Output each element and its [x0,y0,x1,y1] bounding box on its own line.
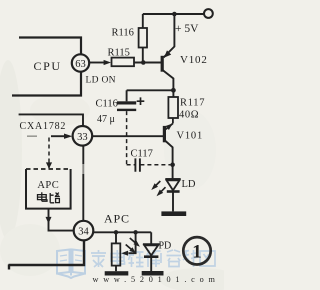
svg-text:R115: R115 [108,48,130,59]
wire APC box to pin34 [49,209,74,231]
svg-text:C117: C117 [131,149,153,160]
svg-text:www.520101.com: www.520101.com [93,275,220,284]
svg-text:CPU: CPU [34,59,62,73]
wire CXA1782 to pin33 top [19,114,83,126]
ground PD [142,271,164,276]
wire pin33 to pin34 [82,146,84,221]
watermark char 2 dian [111,250,125,264]
svg-text:LD: LD [182,179,196,190]
wire dashed down to APC box [48,138,50,169]
label dian-lu (circuit) glyphs [38,192,60,203]
wire pin33 to V101 base [92,135,164,137]
laser diode LD [165,178,180,180]
capacitor C117 [135,158,140,171]
light arrows out of LD [155,181,161,187]
node pot top junction [114,230,118,234]
junction base node [141,60,146,65]
node emitter-C117 junction [170,162,175,167]
APC circuit box [26,168,71,170]
transistor V101 collector lead [164,140,172,179]
ground pot [105,271,129,275]
svg-text:PD: PD [159,241,172,252]
wire arrow into pin 33 [51,135,65,137]
resistor R115 [112,58,135,67]
watermark char 1 jia [91,250,106,267]
watermark char 6 liao [183,250,198,267]
capacitor C116 [126,90,128,101]
svg-text:R117: R117 [180,98,205,109]
node collector junction [171,88,176,93]
svg-text:V101: V101 [177,131,204,142]
svg-text:CXA1782: CXA1782 [20,121,67,132]
node wiper branch junction [133,230,137,234]
CXA1782 pin 33 circle [73,126,93,146]
potentiometer wiper arrow [128,232,135,253]
ground LD [161,211,186,216]
svg-text:1: 1 [192,242,202,263]
resistor R116 [142,14,144,28]
wire pin63 to R115 with arrow [89,62,105,64]
svg-text:47 μ: 47 μ [97,114,115,125]
wire dashed to C117 [127,164,135,166]
figure callout circled 1 [183,237,210,264]
svg-text:40Ω: 40Ω [179,110,199,121]
wire pin34 down-left [9,240,85,269]
CPU box [12,38,81,96]
transistor V101 base bar [163,126,166,142]
wire collector node to C116 [127,89,174,91]
wire APC net to PD [150,232,152,244]
+5V terminal [204,9,213,18]
wire pot to ground [115,266,117,272]
svg-text:+ 5V: + 5V [175,23,199,35]
transistor V102 collector lead [162,70,173,91]
+5V rail wire [143,13,204,15]
svg-text:34: 34 [78,227,89,238]
wire R115 to V102 base [134,62,162,64]
svg-text:R116: R116 [112,28,134,39]
svg-text:33: 33 [77,132,88,143]
watermark char 3 wei [129,251,144,267]
wire C116 bottom dashed [126,111,128,165]
watermark book icon [57,249,85,279]
photodiode PD [143,243,160,245]
svg-text:63: 63 [75,59,86,70]
potentiometer body [115,232,117,243]
transistor V102 base bar [161,56,164,72]
wire C117 to emitter node dashed [140,164,170,166]
watermark char 7 wang [200,251,215,266]
CPU pin 63 circle [72,54,89,71]
svg-text:LD ON: LD ON [86,76,116,86]
transistor V101 emitter lead [166,123,173,129]
svg-text:APC: APC [37,180,59,191]
svg-text:C116: C116 [96,99,118,110]
svg-text:V102: V102 [180,54,208,66]
node rail junction [172,12,177,17]
light arrows into PD [130,238,137,244]
watermark char 5 zi [167,250,182,267]
transistor V102 emitter lead [164,14,175,57]
CXA1782 pin 34 circle [74,221,94,241]
wire faint stub [27,135,37,137]
svg-text:APC: APC [104,212,130,226]
wire pin34 right APC net [93,231,151,233]
watermark char 4 xiu [147,250,162,267]
resistor R117 [172,90,174,97]
